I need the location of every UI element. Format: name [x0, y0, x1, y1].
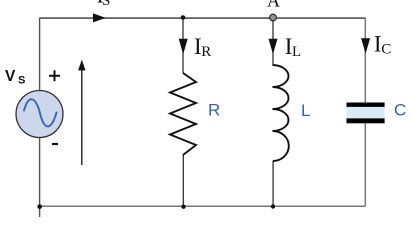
svg-text:L: L	[301, 101, 310, 120]
svg-text:S: S	[102, 0, 110, 9]
wire bottom horizontal	[39, 205, 365, 207]
capacitor C bottom plate	[347, 118, 385, 123]
capacitor C top plate	[347, 103, 385, 107]
junction dot bottom resistor	[181, 205, 185, 209]
current arrow IL	[269, 39, 278, 55]
wire inductor branch lower	[272, 161, 274, 207]
wire resistor branch upper	[182, 17, 184, 73]
svg-text:R: R	[201, 44, 211, 60]
wire right vertical lower	[364, 123, 366, 206]
inductor L coil	[273, 65, 289, 161]
svg-text:S: S	[18, 75, 25, 87]
wire right vertical upper	[364, 17, 366, 102]
plus sign	[49, 70, 60, 81]
wire left vertical upper	[39, 18, 41, 91]
current arrow IR	[179, 39, 188, 55]
junction dot bottom left	[37, 204, 42, 209]
svg-text:R: R	[208, 101, 220, 120]
wire left vertical lower	[39, 138, 41, 218]
current arrow Is	[93, 13, 106, 22]
source V1 circle	[16, 91, 63, 138]
svg-text:V: V	[5, 68, 16, 85]
resistor R zigzag	[170, 73, 196, 155]
wire inductor branch upper	[272, 17, 274, 66]
minus sign	[52, 143, 58, 145]
source sine wave	[24, 99, 57, 126]
svg-text:C: C	[381, 42, 391, 58]
node A dot	[270, 14, 277, 21]
reference arrow up	[81, 69, 83, 165]
capacitor C gap fill	[347, 107, 385, 119]
svg-text:L: L	[292, 44, 301, 60]
svg-text:A: A	[267, 0, 280, 11]
junction dot bottom inductor	[271, 204, 275, 208]
node dot resistor top	[181, 15, 186, 20]
current arrow IC	[361, 38, 370, 54]
svg-text:C: C	[394, 101, 406, 120]
wire resistor branch lower	[182, 155, 184, 206]
wire top horizontal	[39, 17, 365, 19]
